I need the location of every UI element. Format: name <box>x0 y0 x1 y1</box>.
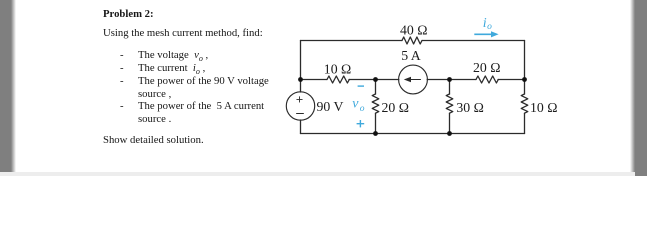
wire branch3 top <box>524 80 526 95</box>
wire branch1 bottom <box>375 113 377 133</box>
voltage source V1 90V circle <box>286 92 314 120</box>
label plus (vo polarity) <box>357 120 365 127</box>
wire bottom rail <box>301 133 525 135</box>
resistor R 30ohm vertical zigzag <box>446 94 453 113</box>
wire node A to voltage source <box>300 80 302 93</box>
svg-text:20 Ω: 20 Ω <box>382 100 410 115</box>
instruction line <box>103 27 263 40</box>
resistor R 10ohm vertical zigzag <box>521 94 528 113</box>
bottom light band <box>0 172 635 176</box>
node dot A (left middle) <box>298 77 303 82</box>
svg-text:40 Ω: 40 Ω <box>400 23 428 38</box>
left gray edge strip <box>0 0 17 172</box>
right gray edge strip <box>630 0 647 176</box>
svg-text:10 Ω: 10 Ω <box>324 62 352 77</box>
node dot B (top of 20ohm branch) <box>373 77 378 82</box>
node dot C (top of 30ohm branch) <box>447 77 452 82</box>
wire middle rail: 20ohm to node D <box>498 79 525 81</box>
wire branch3 bottom <box>524 113 526 133</box>
svg-text:30 Ω: 30 Ω <box>456 100 484 115</box>
wire top rail left segment <box>301 40 403 42</box>
wire right vertical upper <box>524 41 526 80</box>
wire top rail right segment <box>422 40 525 42</box>
closing line <box>103 134 204 147</box>
svg-text:10 Ω: 10 Ω <box>530 100 558 115</box>
svg-text:5 A: 5 A <box>401 48 421 63</box>
wire middle rail: node A to 10ohm <box>301 79 328 81</box>
current source I1 arrow <box>407 79 421 81</box>
bullet 4 <box>120 100 124 113</box>
svg-text:o: o <box>360 104 365 114</box>
resistor R 40ohm zigzag <box>402 37 422 44</box>
svg-text:20 Ω: 20 Ω <box>473 60 501 75</box>
wire middle rail: 10ohm to node B <box>349 79 399 81</box>
node dot D (top of 10ohm branch) <box>522 77 527 82</box>
wire left vertical top (outer loop) <box>300 41 302 80</box>
voltage source minus sign <box>297 113 304 115</box>
wire branch1 top <box>375 80 377 95</box>
resistor R 10ohm zigzag <box>327 76 349 83</box>
wire middle rail: node C to 20ohm <box>450 79 477 81</box>
bullet 3 <box>120 75 124 88</box>
svg-text:90 V: 90 V <box>317 99 344 114</box>
arrow io <box>474 33 492 35</box>
voltage source plus sign <box>297 97 302 102</box>
svg-text:v: v <box>352 97 359 112</box>
node dot E (bottom of 20ohm branch) <box>373 131 378 136</box>
resistor R 20ohm vertical zigzag <box>372 94 379 113</box>
svg-text:o: o <box>487 22 492 32</box>
node dot F (bottom of 30ohm branch) <box>447 131 452 136</box>
bullet 2 <box>120 62 124 75</box>
svg-text:i: i <box>483 16 487 31</box>
wire voltage source to bottom rail <box>300 120 302 134</box>
current source I1 5A circle <box>399 65 428 94</box>
label minus (vo polarity) <box>358 85 364 87</box>
wire middle rail: source to node C <box>427 79 449 81</box>
problem title <box>103 8 154 21</box>
bullet 1 <box>120 49 124 62</box>
wire branch2 top <box>449 80 451 95</box>
wire branch2 bottom <box>449 113 451 133</box>
resistor R 20ohm horizontal zigzag <box>476 76 498 83</box>
